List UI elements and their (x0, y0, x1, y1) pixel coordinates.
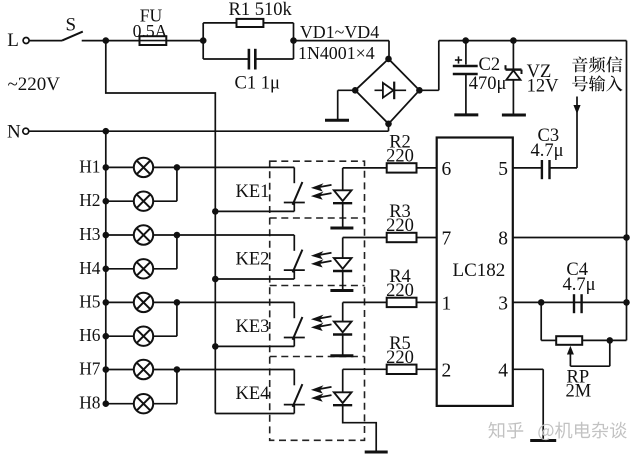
svg-text:C1 1μ: C1 1μ (235, 74, 280, 94)
wire (417, 237, 437, 239)
wire pair link (174, 366, 181, 404)
resistor R2 (387, 163, 417, 172)
svg-text:H8: H8 (79, 393, 101, 413)
wire rail (439, 40, 627, 42)
wire (417, 301, 437, 303)
wire (203, 58, 248, 60)
ground (502, 114, 526, 117)
relay contact KE2 (177, 235, 305, 279)
arrow audio (573, 97, 580, 168)
svg-text:VD1~VD4: VD1~VD4 (300, 22, 379, 42)
wire (550, 167, 577, 169)
capacitor C2 (453, 56, 478, 74)
wire (541, 302, 556, 340)
wire pin4 (513, 369, 543, 439)
wire (465, 41, 467, 65)
svg-text:1: 1 (442, 293, 452, 314)
wire (626, 41, 628, 341)
label 220 (386, 146, 414, 166)
terminal N (23, 128, 29, 134)
svg-text:0.5A: 0.5A (133, 21, 168, 41)
svg-text:R1 510k: R1 510k (229, 0, 293, 20)
ground (330, 227, 353, 230)
wire (582, 337, 626, 344)
label VZ (527, 62, 552, 82)
fuse FU (140, 36, 167, 45)
junction (212, 343, 219, 350)
label audio in (572, 56, 622, 91)
lamp H7 (79, 359, 177, 380)
svg-text:220: 220 (386, 146, 414, 166)
wire (343, 237, 387, 239)
label C3 (538, 126, 560, 146)
wire (419, 41, 438, 91)
wire (343, 301, 387, 303)
terminal L (23, 38, 29, 44)
svg-text:220: 220 (386, 348, 414, 368)
ground (365, 451, 388, 454)
wire (343, 167, 387, 169)
wire (294, 41, 390, 59)
label KE4 (236, 384, 270, 404)
bridge rectifier VD1-VD4 (352, 56, 423, 128)
watermark (488, 422, 626, 440)
label C4 4.7u (563, 275, 596, 295)
label KE2 (236, 250, 270, 270)
node (200, 23, 207, 59)
junction (212, 208, 219, 215)
wire (29, 40, 62, 42)
ground (325, 119, 349, 122)
ground (530, 439, 556, 442)
label KE3 (236, 317, 270, 337)
label 2M (566, 382, 592, 402)
wire (82, 40, 140, 42)
pin 2 (442, 360, 452, 381)
resistor R4 (387, 298, 417, 307)
svg-text:4.7μ: 4.7μ (531, 141, 564, 161)
relay module separator (dashed) (270, 356, 365, 358)
zener VZ (506, 65, 522, 80)
switch S (62, 32, 83, 41)
svg-text:N: N (7, 121, 21, 142)
junction (510, 37, 517, 44)
pin 8 (498, 229, 508, 250)
svg-text:H7: H7 (79, 359, 101, 379)
svg-text:470μ: 470μ (469, 74, 507, 94)
wire (513, 167, 541, 169)
label N (7, 121, 21, 142)
label R4 (389, 267, 411, 287)
junction (103, 128, 110, 135)
wire (256, 58, 294, 60)
label FU (140, 6, 163, 26)
svg-text:~220V: ~220V (8, 74, 61, 95)
wire N (29, 130, 389, 132)
lamp H3 (79, 224, 177, 245)
svg-text:12V: 12V (527, 77, 560, 97)
label 470u (469, 74, 507, 94)
label VD1~VD4 (300, 22, 379, 42)
wire pin8 (513, 234, 630, 241)
svg-text:KE3: KE3 (236, 317, 270, 337)
label LC182 (453, 260, 506, 281)
label S (66, 15, 77, 36)
potentiometer RP (556, 336, 582, 345)
svg-text:220: 220 (386, 281, 414, 301)
svg-text:5: 5 (498, 159, 508, 180)
wire (512, 80, 514, 114)
resistor R1 (237, 19, 264, 27)
svg-text:KE4: KE4 (236, 384, 270, 404)
pin 7 (442, 229, 452, 250)
label KE1 (236, 182, 270, 202)
svg-text:220: 220 (386, 216, 414, 236)
wire (417, 167, 437, 169)
lamp H5 (79, 291, 177, 312)
opto LED 4 (311, 369, 376, 451)
capacitor C1 (249, 49, 255, 70)
label C1 1u (235, 74, 280, 94)
label 0.5A (133, 21, 168, 41)
svg-text:6: 6 (442, 159, 452, 180)
label R3 (389, 202, 411, 222)
label R5 (389, 334, 411, 354)
label 220 (386, 281, 414, 301)
wire (512, 41, 514, 69)
wire (166, 40, 203, 42)
svg-text:H2: H2 (79, 190, 100, 210)
label R2 (389, 132, 411, 152)
pin 1 (442, 293, 452, 314)
svg-text:4.7μ: 4.7μ (563, 275, 596, 295)
wiper RP (567, 340, 610, 366)
wire (343, 368, 387, 370)
ground (454, 113, 478, 116)
svg-text:3: 3 (498, 293, 508, 314)
svg-text:2: 2 (442, 360, 452, 381)
pin 3 (498, 293, 508, 314)
label 1N4001x4 (298, 43, 375, 63)
capacitor C4 (574, 294, 582, 313)
label C2 (479, 55, 501, 75)
ground (330, 289, 353, 292)
svg-text:H1: H1 (79, 156, 100, 176)
svg-text:7: 7 (442, 229, 452, 250)
wire pin3 (513, 299, 630, 306)
pin 6 (442, 159, 452, 180)
relay contact KE3 (177, 302, 305, 346)
svg-text:8: 8 (498, 229, 508, 250)
wire pair link (174, 232, 181, 269)
pin 4 (498, 360, 508, 381)
relay module separator (dashed) (270, 285, 365, 287)
label R1 510k (229, 0, 293, 20)
lamp H6 (79, 325, 177, 346)
wire (263, 23, 293, 59)
wire (338, 90, 356, 119)
label 220V (8, 74, 61, 95)
wire (465, 75, 467, 114)
pin 5 (498, 159, 508, 180)
svg-text:C2: C2 (479, 55, 501, 75)
wire bus L (106, 41, 216, 414)
wire pair link (174, 299, 181, 336)
relay contact KE4 (177, 370, 305, 414)
label C3 4.7u (531, 141, 564, 161)
opto LED 3 (311, 302, 352, 355)
ground (330, 354, 353, 357)
lamp H8 (79, 393, 177, 414)
resistor R5 (387, 365, 417, 374)
resistor R3 (387, 233, 417, 242)
relay module box (dashed) (270, 161, 365, 440)
IC LC182 (437, 138, 513, 406)
svg-text:H3: H3 (79, 224, 101, 244)
lamp H4 (79, 258, 177, 279)
label RP (567, 368, 590, 388)
wire (203, 22, 236, 24)
svg-text:H5: H5 (79, 291, 101, 311)
lamp H1 (79, 156, 177, 177)
opto LED 1 (311, 168, 352, 228)
relay module separator (dashed) (270, 217, 365, 219)
wire pair link (174, 164, 181, 201)
svg-text:LC182: LC182 (453, 260, 506, 281)
label 220 (386, 348, 414, 368)
svg-text:1N4001×4: 1N4001×4 (298, 43, 375, 63)
junction (212, 276, 219, 283)
svg-text:L: L (7, 30, 19, 51)
svg-text:4: 4 (498, 360, 508, 381)
label 220 (386, 216, 414, 236)
junction (103, 37, 110, 44)
opto LED 2 (311, 238, 352, 291)
label 12V (527, 77, 560, 97)
svg-text:KE1: KE1 (236, 182, 270, 202)
svg-text:H6: H6 (79, 325, 101, 345)
label L (7, 30, 19, 51)
svg-text:KE2: KE2 (236, 250, 270, 270)
relay contact KE1 (177, 167, 305, 211)
node (290, 37, 297, 44)
svg-text:H4: H4 (79, 258, 101, 278)
capacitor C3 (542, 160, 550, 179)
junction (462, 37, 469, 44)
lamp H2 (79, 190, 177, 211)
wire bus lamps (105, 131, 107, 404)
wire (388, 124, 390, 131)
svg-text:S: S (66, 15, 77, 36)
label C4 (566, 260, 588, 280)
wire (417, 368, 437, 370)
svg-text:2M: 2M (566, 382, 592, 402)
